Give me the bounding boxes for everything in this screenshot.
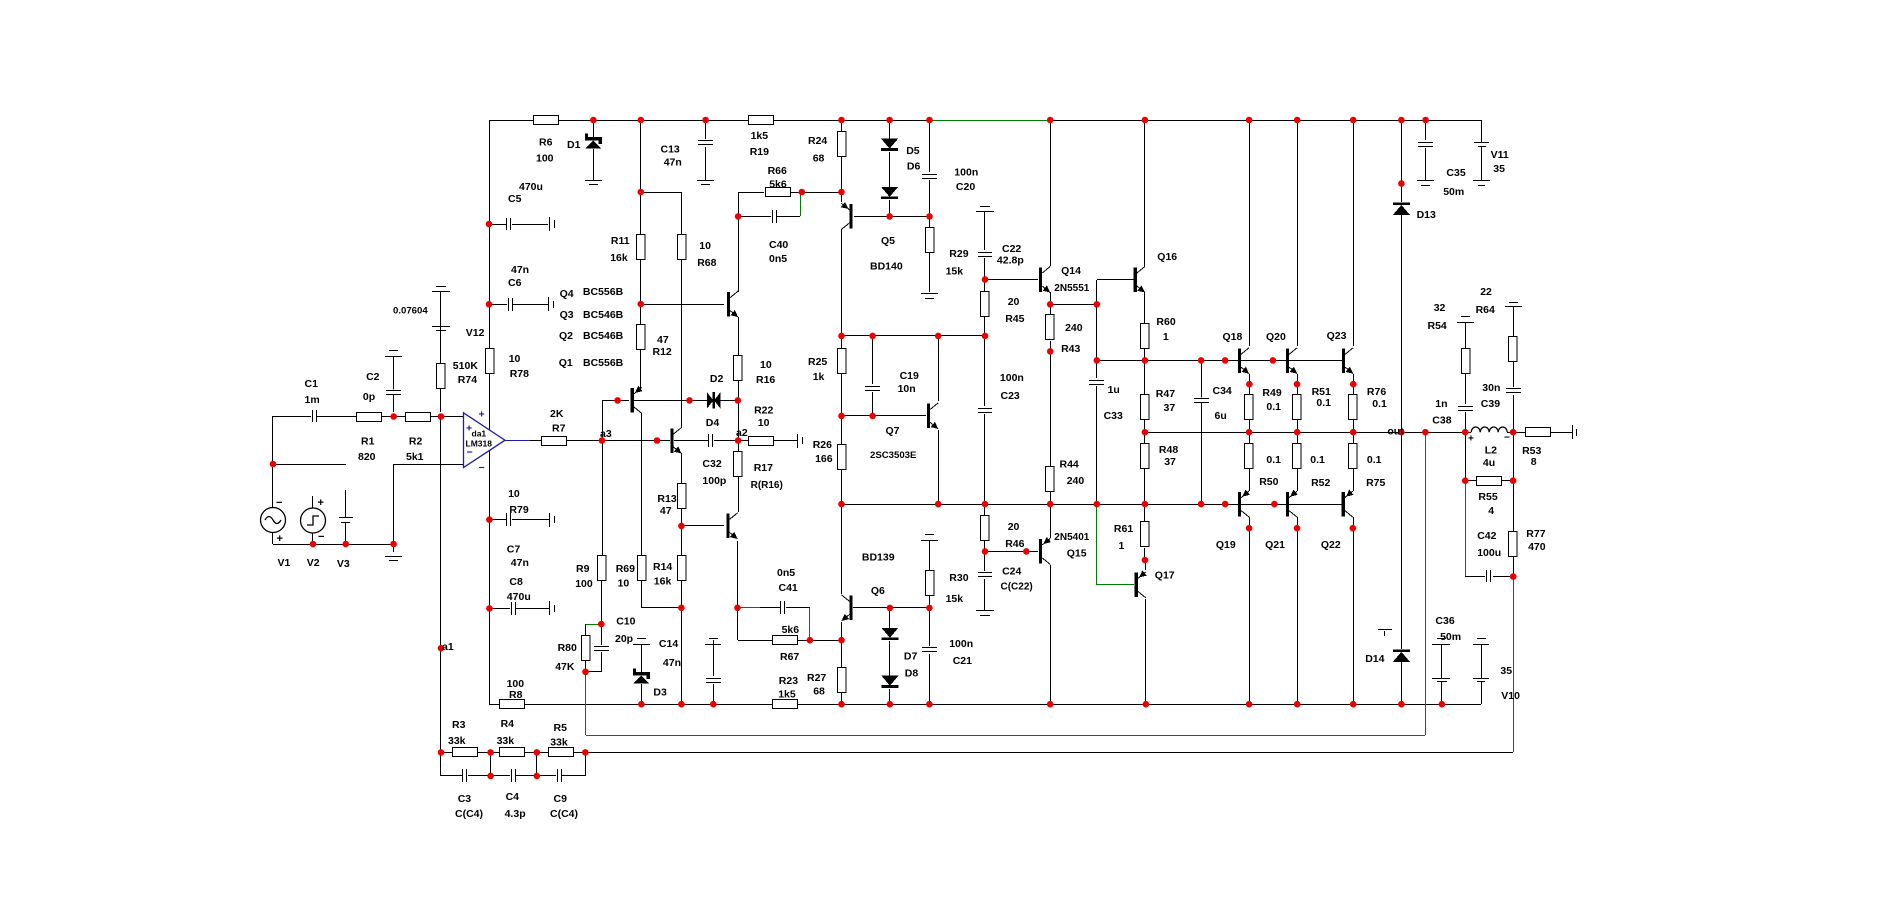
svg-text:C23: C23 [1001, 390, 1020, 402]
wire opamp inverting feedback [394, 464, 464, 466]
resistor R69 [638, 556, 647, 581]
svg-text:R12: R12 [653, 346, 672, 358]
wire a2 to R22 [738, 440, 749, 442]
svg-text:R27: R27 [807, 672, 826, 684]
junction at 1297,528.2 [1294, 525, 1301, 532]
wire R4 row [525, 752, 548, 754]
wire output to R7 [530, 440, 542, 442]
junction at 1352.8,528.2 [1350, 525, 1357, 532]
wire V10 bottom lead [1481, 682, 1483, 704]
svg-text:D5: D5 [906, 145, 920, 157]
resistor R30 [926, 571, 935, 596]
wire C4 row c [516, 775, 537, 777]
svg-text:D7: D7 [904, 651, 918, 663]
junction at 1050.2,704.2 [1047, 701, 1054, 708]
svg-text:10: 10 [508, 488, 520, 500]
resistor R24 [838, 132, 847, 157]
wire C40 green up [800, 193, 802, 216]
capacitor C40 [771, 210, 776, 223]
junction at 737.5,607.8 [734, 605, 741, 612]
resistor R77 [1509, 532, 1518, 557]
wire Q18/Q19 lower collector [1249, 517, 1251, 704]
svg-text:C20: C20 [956, 181, 975, 193]
svg-text:Q18: Q18 [1223, 331, 1243, 343]
svg-text:47: 47 [657, 334, 669, 346]
terminal C5 [549, 217, 551, 231]
svg-text:470u: 470u [519, 181, 543, 193]
svg-text:20p: 20p [615, 633, 633, 645]
junction at 345.8,544 [343, 541, 350, 548]
resistor R50 [1245, 444, 1254, 469]
svg-text:a1: a1 [442, 641, 454, 653]
resistor R29 [926, 228, 935, 253]
svg-text:0.1: 0.1 [1266, 401, 1281, 413]
svg-text:47n: 47n [663, 657, 681, 669]
resistor R27 [838, 668, 847, 693]
junction at 841.5,192 [838, 189, 845, 196]
wire R45 to rail [984, 316, 986, 336]
svg-text:47n: 47n [664, 157, 682, 169]
wire C42 green left [1465, 481, 1467, 576]
wire C20 top [929, 120, 931, 172]
svg-text:15k: 15k [946, 593, 964, 605]
resistor R7 [542, 437, 567, 446]
transistor Q4 [726, 514, 729, 539]
svg-text:22: 22 [1480, 286, 1492, 298]
wire L2 stubs [1465, 432, 1471, 434]
svg-text:R61: R61 [1114, 523, 1133, 535]
wire C41 right [786, 607, 810, 609]
wire D8 to bus [889, 689, 891, 704]
junction at 585.5,671.8 [582, 669, 589, 676]
svg-text:C(C4): C(C4) [550, 808, 578, 820]
wire C13 top [705, 120, 707, 139]
svg-text:R60: R60 [1156, 316, 1175, 328]
junction at 1096.8,304.3 [1094, 301, 1101, 308]
source V1 [261, 508, 286, 533]
junction at 841.5,335.9 [838, 333, 845, 340]
transistor Q2 [631, 388, 634, 413]
svg-text:R49: R49 [1262, 387, 1281, 399]
junction at 593.4,120 [590, 117, 597, 124]
wire R47 to out rail [1144, 420, 1146, 432]
wire C20 bottom [929, 180, 931, 216]
svg-text:C9: C9 [554, 793, 568, 805]
svg-text:D3: D3 [653, 687, 667, 699]
resistor R68 [678, 235, 687, 260]
wire C9 row b [537, 775, 556, 777]
wire D14 terminal stub [1384, 631, 1386, 636]
wire a3 corner to y400 [602, 400, 618, 402]
resistor R19 [749, 116, 774, 125]
wire R24 top [841, 120, 843, 132]
svg-text:BD139: BD139 [862, 552, 895, 564]
wire T2 base to C32 [674, 440, 708, 442]
svg-text:4u: 4u [1483, 457, 1495, 469]
junction at 1249.1,120 [1246, 117, 1253, 124]
wire C32 to a2 [714, 440, 738, 442]
wire corner to R66 [738, 192, 764, 194]
junction at 929.4,704.2 [926, 701, 933, 708]
source V3 battery [339, 517, 353, 519]
svg-text:1k: 1k [813, 371, 825, 383]
junction at 889.9,607.9 [887, 605, 894, 612]
svg-text:D8: D8 [905, 668, 919, 680]
junction at 1249.4,384.2 [1246, 381, 1253, 388]
svg-text:C19: C19 [900, 370, 919, 382]
svg-text:4: 4 [1488, 505, 1494, 517]
wire Q14 emitter row [1050, 304, 1097, 306]
svg-text:50m: 50m [1440, 631, 1461, 643]
wire Qa emitter down [738, 317, 740, 356]
svg-text:V10: V10 [1501, 690, 1520, 702]
junction at 273,464 [270, 461, 277, 468]
svg-text:C10: C10 [616, 616, 635, 628]
wire Q23/Q22 emitter [1353, 374, 1355, 396]
open terminal above C22 [980, 206, 990, 208]
svg-text:C8: C8 [509, 576, 523, 588]
svg-text:Q14: Q14 [1061, 265, 1081, 277]
capacitor C13 [698, 140, 713, 145]
wire R13 to node [681, 508, 683, 556]
wire C40 right [777, 216, 800, 218]
wire feedback vertical [393, 464, 395, 544]
svg-text:10: 10 [758, 417, 770, 429]
svg-text:C(C4): C(C4) [455, 808, 483, 820]
junction at 889.9,704.2 [887, 701, 894, 708]
svg-text:6u: 6u [1215, 410, 1227, 422]
junction at 393.7,416.5 [390, 413, 397, 420]
wire Q15 collector down [1050, 565, 1052, 704]
capacitor C24 [978, 572, 993, 577]
junction at 929.4,607.9 [926, 605, 933, 612]
junction at 938.2,504.1 [935, 501, 942, 508]
junction at 489,224 [486, 221, 493, 228]
wire lower feedback across [585, 752, 1513, 754]
wire Qa base row [641, 304, 724, 306]
wire Q5 emitter up [841, 192, 843, 202]
junction at 1513.1,432.2 [1510, 429, 1517, 436]
junction at 640.8,304.1 [638, 301, 645, 308]
svg-text:100: 100 [575, 578, 593, 590]
ground below C13 [697, 180, 714, 182]
transistor Q14 2N5551 [1039, 267, 1042, 292]
junction at 489.4,519.7 [486, 516, 493, 523]
wire R46 to node [984, 540, 986, 551]
svg-text:a3: a3 [600, 428, 612, 440]
svg-text:R77: R77 [1526, 528, 1545, 540]
svg-text:R78: R78 [510, 368, 529, 380]
svg-text:R6: R6 [539, 137, 553, 149]
wire D7-D8 [889, 641, 891, 676]
wire Q6 emitter to R27 [841, 622, 843, 668]
wire R5 row [574, 752, 585, 754]
junction at 1401.4,183.5 [1398, 180, 1405, 187]
wire green feedback down [1425, 432, 1427, 735]
wire R61 to Q17 [1144, 548, 1146, 560]
junction at 689.5,400.4 [686, 397, 693, 404]
svg-text:V1: V1 [278, 557, 291, 569]
svg-text:Q20: Q20 [1266, 331, 1286, 343]
junction at 1145.9,704.2 [1143, 701, 1150, 708]
diode D6 [881, 187, 898, 197]
wire C41 row [760, 607, 780, 609]
svg-text:+: + [318, 497, 324, 509]
junction at 1297.2,704.2 [1294, 701, 1301, 708]
svg-text:V11: V11 [1491, 149, 1509, 161]
junction at 1401.4,432.2 [1398, 429, 1405, 436]
wire C4 row a [490, 752, 492, 776]
wire T1 collector down [641, 413, 643, 556]
junction at 1425.6,120 [1422, 117, 1429, 124]
wire R7 to a3 [566, 440, 602, 442]
junction at 872.6,415.9 [869, 413, 876, 420]
junction at 1274.4,504.1 [1271, 501, 1278, 508]
wire C10 to R80 node [586, 671, 601, 673]
svg-text:V12: V12 [466, 327, 485, 339]
capacitor C23 [978, 408, 993, 413]
wire C14 to bus [713, 684, 715, 704]
resistor R47 [1141, 395, 1150, 420]
svg-text:0.1: 0.1 [1316, 397, 1331, 409]
wire C6 right [513, 304, 548, 306]
wire green feedback across [586, 735, 1425, 737]
resistor R14 [678, 556, 687, 581]
wire Q7 collector up [938, 336, 940, 401]
junction at 705.6,120 [702, 117, 709, 124]
svg-text:C13: C13 [661, 144, 680, 156]
wire C1 to R1 [317, 416, 357, 418]
junction at 1026.3,551.4 [1023, 548, 1030, 555]
transistor Q7 2SC3503E [927, 404, 930, 429]
wire V11 lead [1481, 146, 1483, 180]
svg-text:1: 1 [1119, 540, 1125, 552]
wire D3 to bus [641, 684, 643, 704]
resistor R13 [678, 484, 687, 509]
capacitor C34 [1194, 398, 1209, 403]
wire R25 top [841, 336, 843, 348]
wire C23 to rail504 [984, 414, 986, 504]
wire R16 to y400 [738, 380, 740, 400]
junction at 1425.4,432.2 [1422, 429, 1429, 436]
wire Q23/Q22 R to rail [1353, 417, 1355, 444]
junction at 985,335.9 [982, 333, 989, 340]
wire bus corner to V11 [1481, 120, 1483, 142]
junction at 1401.4,704.2 [1398, 701, 1405, 708]
wire D5 top [889, 120, 891, 139]
svg-text:R9: R9 [576, 563, 590, 575]
svg-text:47: 47 [660, 505, 672, 517]
wire Q18/Q19 R to rail [1249, 417, 1251, 444]
wire R80 top green [586, 624, 601, 626]
junction at 441,416.5 [438, 413, 445, 420]
wire Q16 collector up [1144, 120, 1146, 267]
wire R55 left [1465, 480, 1477, 482]
svg-text:32: 32 [1434, 302, 1446, 314]
capacitor C35 [1418, 141, 1433, 146]
svg-text:47n: 47n [511, 264, 529, 276]
wire Q23/Q22 lower R to Q emitter [1353, 468, 1355, 491]
capacitor C33 [1089, 380, 1104, 385]
wire R54 to C38 [1465, 373, 1467, 404]
svg-text:R75: R75 [1366, 477, 1385, 489]
wire R3 row a [441, 752, 453, 754]
junction at 1144.9,360.4 [1142, 357, 1149, 364]
wire R26 top lead [841, 416, 843, 444]
svg-text:Q17: Q17 [1155, 570, 1175, 582]
svg-text:R44: R44 [1060, 459, 1079, 471]
svg-text:0n5: 0n5 [769, 253, 787, 265]
wire bottom bus [489, 704, 1481, 706]
wire D13 to out rail [1401, 215, 1403, 432]
wire C33 to rail504 [1096, 386, 1098, 504]
svg-text:8: 8 [1531, 456, 1537, 468]
capacitor C4 [511, 769, 516, 782]
junction at 441,648.2 [438, 645, 445, 652]
transistor Q20 [1286, 348, 1289, 373]
svg-text:Q19: Q19 [1216, 539, 1236, 551]
capacitor C21 [922, 647, 937, 652]
wire mid rail y335 [842, 335, 985, 337]
wire rail360 to C33 [1096, 360, 1098, 378]
wire Q5 collector down [841, 229, 843, 416]
wire C38 to out [1465, 412, 1467, 432]
svg-text:Q21: Q21 [1265, 539, 1285, 551]
ground below D1 [585, 180, 602, 182]
svg-text:820: 820 [358, 451, 376, 463]
capacitor C19 [865, 385, 880, 390]
svg-text:37: 37 [1164, 456, 1176, 468]
transistor Q19 [1238, 492, 1241, 516]
transistor Q17 [1135, 573, 1138, 598]
wire D1 to ground [593, 149, 595, 180]
svg-text:C33: C33 [1104, 410, 1123, 422]
svg-text:0n5: 0n5 [777, 567, 795, 579]
wire D5-D6 [889, 152, 891, 187]
diode D7 [881, 628, 898, 638]
junction at 1225.1,360.4 [1222, 357, 1229, 364]
wire R44 to rail504 [1050, 492, 1052, 504]
svg-text:a2: a2 [736, 427, 748, 439]
wire C8 row [489, 608, 510, 610]
resistor R25 [838, 349, 847, 374]
capacitor C1 [311, 410, 316, 423]
svg-text:510K: 510K [453, 360, 479, 372]
wire Q20/Q21 collector up [1297, 120, 1299, 346]
svg-text:R14: R14 [653, 561, 672, 573]
capacitor C32 [708, 434, 713, 447]
wire C10 bottom [601, 652, 603, 672]
junction at 1513.2,576.6 [1510, 573, 1517, 580]
ground below R29 [921, 293, 938, 295]
zener diode D1 [585, 137, 602, 140]
wire C3 row b [468, 775, 491, 777]
junction at 1096.8,504.1 [1094, 501, 1101, 508]
resistor R12 [637, 325, 646, 350]
junction at 441,752.4 [438, 749, 445, 756]
wire a2 to R17 [738, 440, 740, 451]
svg-text:R11: R11 [611, 235, 630, 247]
junction at 1297,384.2 [1294, 381, 1301, 388]
svg-text:Q7: Q7 [886, 425, 900, 437]
wire C41 green down [809, 608, 811, 640]
wire D14 to bus [1401, 662, 1403, 704]
junction at 1353.2,432.2 [1350, 429, 1357, 436]
resistor R44 [1046, 467, 1055, 492]
wire C7 right [512, 519, 549, 521]
junction at 1353.2,704.2 [1350, 701, 1357, 708]
wire R64 to C39 [1513, 358, 1515, 387]
junction at 1353.2,120 [1350, 117, 1357, 124]
svg-text:+: + [1468, 434, 1474, 445]
wire T2 emitter down [681, 453, 683, 485]
resistor R64 [1509, 337, 1518, 362]
ground below C24 [976, 610, 994, 612]
wire C39 to out [1513, 395, 1515, 432]
wire ground stub below sources [393, 544, 395, 552]
svg-text:100: 100 [536, 153, 554, 165]
svg-text:C21: C21 [953, 655, 972, 667]
svg-text:Q6: Q6 [871, 585, 885, 597]
wire x1097 to rail360 [1096, 304, 1098, 360]
capacitor C41 [780, 601, 785, 614]
wire opamp output blue [505, 440, 530, 442]
resistor R1 [357, 413, 382, 422]
svg-text:R29: R29 [949, 248, 968, 260]
wire L2 left down [1465, 432, 1467, 481]
wire C35 bottom lead [1425, 148, 1427, 180]
diode D14 [1393, 649, 1410, 652]
wire out rail to R48 [1144, 432, 1146, 444]
capacitor C8 [511, 602, 516, 615]
svg-text:1k5: 1k5 [778, 689, 796, 701]
wire Q20/Q21 lower R to Q emitter [1297, 468, 1299, 491]
wire R5 to feedback [585, 752, 587, 776]
svg-text:BC546B: BC546B [583, 309, 624, 321]
wire R30 to Q6 base [929, 596, 931, 608]
svg-text:BC546B: BC546B [583, 330, 624, 342]
open terminal above R30 [925, 534, 934, 536]
svg-text:0.07604: 0.07604 [393, 306, 428, 317]
svg-text:470: 470 [1528, 541, 1546, 553]
wire R67 row right [798, 640, 842, 642]
svg-text:C32: C32 [702, 458, 721, 470]
resistor R5 [549, 748, 574, 757]
svg-text:1n: 1n [1435, 398, 1447, 410]
wire R77 top [1513, 481, 1515, 532]
junction at 490.6,752.4 [487, 749, 494, 756]
svg-text:D4: D4 [706, 417, 720, 429]
svg-text:R55: R55 [1478, 491, 1497, 503]
svg-text:Q5: Q5 [881, 235, 895, 247]
junction at 841.5,504.1 [838, 501, 845, 508]
svg-text:C41: C41 [779, 582, 798, 594]
svg-text:R13: R13 [657, 493, 676, 505]
svg-text:V2: V2 [307, 557, 320, 569]
wire Q23/Q22 lower collector [1353, 517, 1355, 704]
wire C40 branch [738, 216, 771, 218]
resistor R49 [1245, 395, 1254, 420]
wire Q6 base node to C21 [929, 608, 931, 646]
wire green feedback up to R80 [585, 672, 587, 735]
junction at 1297.2,432.2 [1294, 429, 1301, 436]
svg-text:Q23: Q23 [1327, 330, 1347, 342]
junction at 1144.9,120 [1142, 117, 1149, 124]
wire R46 top [984, 504, 986, 516]
capacitor C9 [557, 769, 562, 782]
capacitor C10 [594, 646, 609, 651]
wire V3 bottom lead [345, 522, 347, 544]
